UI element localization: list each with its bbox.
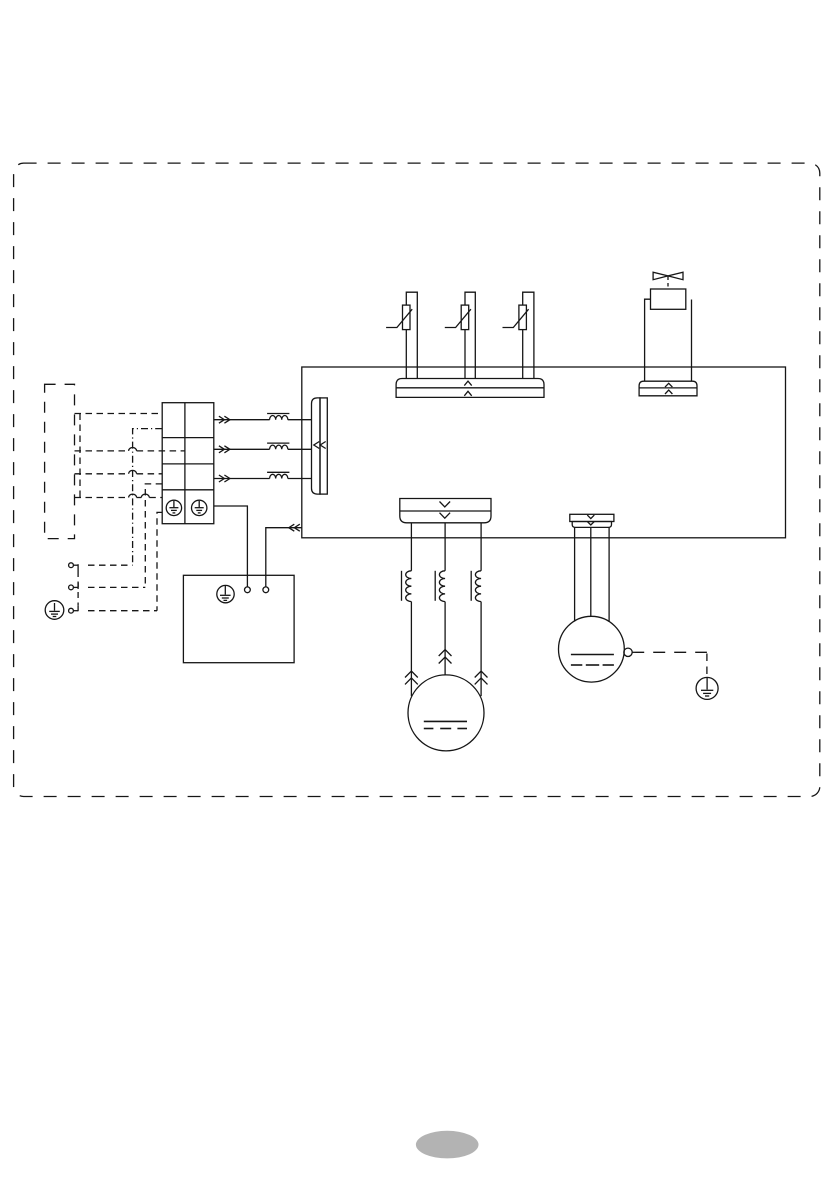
wire signal 3 dashed <box>157 512 162 610</box>
ground G2 (PE symbol in control box) <box>217 585 234 603</box>
valve coil Y1 <box>651 289 686 309</box>
ground G1 (bottom right PE symbol) <box>696 677 718 699</box>
wire signal 1 dash-dot <box>133 429 163 566</box>
node fan earth terminal (small circle) <box>624 648 632 656</box>
thermistor sensor RT3 <box>503 292 534 378</box>
wire mains stub vertical <box>79 414 81 498</box>
thermistor sensor RT1 <box>386 292 417 378</box>
wire PCB to control box <box>266 528 302 587</box>
arrows on compressor V wire <box>439 650 452 664</box>
4-way valve V1 (bowtie symbol) <box>653 272 683 288</box>
earth terminal E1 (left PE circle in block) <box>166 500 181 515</box>
compressor motor M1 <box>408 675 484 751</box>
inductor LV <box>435 571 445 602</box>
fan motor M2 <box>559 616 625 682</box>
wire block to control box <box>214 506 248 587</box>
arrow on wire L3 <box>219 475 230 482</box>
inductor FL2 <box>267 443 289 449</box>
wire valve right lead <box>691 300 693 382</box>
wire fan lead 2 <box>590 527 592 616</box>
contact pin 2 <box>69 583 79 590</box>
arrow on connector CN1 <box>314 442 326 449</box>
inductor FL1 <box>267 414 289 420</box>
arrow on wire L2 <box>219 446 230 453</box>
wire compressor V phase <box>444 523 446 675</box>
wire mains 1 dashed <box>75 413 163 415</box>
page number pill <box>416 1131 479 1159</box>
wire fan lead 1 <box>574 527 576 621</box>
inductor FL3 <box>267 472 289 478</box>
wire L2 (block to PCB, phase 2) <box>214 448 312 450</box>
arrow on wire L1 <box>219 416 230 423</box>
connector CN3 (valve connector on PCB) <box>639 381 697 396</box>
wire to contact 2 dashed <box>88 586 145 588</box>
terminal block TB1 row dividers <box>162 438 214 490</box>
wire fan earth dashed <box>632 652 707 677</box>
thermistor sensor RT2 <box>445 292 476 378</box>
wire to contact 1 dashed <box>88 564 133 566</box>
wire earth dashed with hops <box>75 494 163 497</box>
wire L3 (block to PCB, phase 3) <box>214 478 312 480</box>
connector CN5 (fan connector on PCB bottom) <box>570 514 614 527</box>
terminal block TB1 outline <box>162 403 214 524</box>
arrows on compressor U wire <box>405 671 418 684</box>
ground G3 (left PE symbol) <box>45 601 64 620</box>
wire compressor W phase <box>480 523 482 696</box>
connector CN2 (sensor connector bar on PCB top) <box>396 379 544 398</box>
node box terminal 1 <box>245 587 251 593</box>
arrows on connector CN4 <box>440 502 451 519</box>
node box terminal 2 <box>263 587 269 593</box>
arrow on PCB-to-box wire <box>289 524 300 531</box>
PCB U1 outline <box>302 367 786 538</box>
wire to contact 3 dashed <box>88 610 157 612</box>
earth terminal E2 (right PE circle in block) <box>192 500 207 515</box>
inductor LW <box>471 571 481 602</box>
connector CN1 (PCB left edge power connector) <box>312 398 328 494</box>
wire mains 3 dashed with hop <box>75 470 163 473</box>
page border (dashed rounded frame) <box>14 163 820 796</box>
control box outline <box>183 575 294 662</box>
wire L1 (block to PCB, phase 1) <box>214 419 312 421</box>
wire pin spine dashed <box>77 571 79 606</box>
contact pin 1 <box>69 563 79 571</box>
arrows on compressor W wire <box>475 671 488 684</box>
inductor LU <box>402 571 412 602</box>
wire fan lead 3 <box>608 527 610 622</box>
wire signal 2 dashed <box>145 484 162 588</box>
wire mains 2 dashed with hop <box>75 447 185 450</box>
arrows on connector CN3 <box>665 383 672 394</box>
terminal block TB1 column divider <box>184 403 186 524</box>
arrows on connector CN2 <box>464 381 471 396</box>
connector CN4 (compressor connector on PCB bottom) <box>400 499 491 523</box>
arrows on connector CN5 <box>587 515 594 525</box>
contact pin 3 <box>69 606 79 613</box>
wire valve left lead <box>645 299 651 381</box>
power plug P1 (dashed outline) <box>45 384 75 538</box>
wire compressor U phase <box>410 523 412 696</box>
